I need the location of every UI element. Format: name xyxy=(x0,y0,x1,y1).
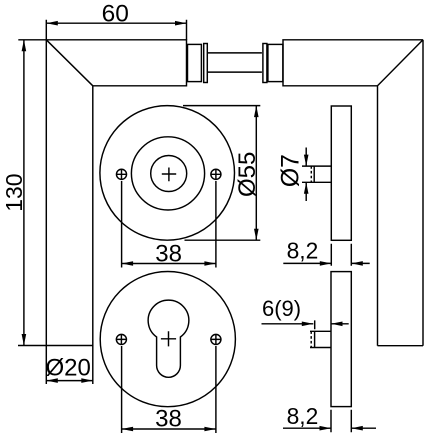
svg-text:38: 38 xyxy=(155,406,182,433)
svg-text:Ø55: Ø55 xyxy=(234,152,261,197)
svg-text:6(9): 6(9) xyxy=(262,296,301,321)
svg-text:38: 38 xyxy=(155,240,182,267)
svg-text:8,2: 8,2 xyxy=(287,237,319,263)
svg-text:60: 60 xyxy=(102,1,129,28)
svg-text:Ø7: Ø7 xyxy=(278,154,305,187)
svg-text:Ø20: Ø20 xyxy=(46,355,91,382)
svg-text:130: 130 xyxy=(1,173,27,211)
svg-text:8,2: 8,2 xyxy=(287,403,319,429)
